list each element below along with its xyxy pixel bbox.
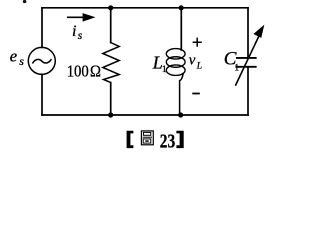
svg-text:e: e [10,46,17,65]
label plus [193,38,202,47]
caption glyph TU bottom inner mark [145,140,148,142]
svg-text:1: 1 [234,63,239,73]
inductor L1 loop 3 [166,65,185,76]
capacitor C1 variable arrow shaft [236,36,259,85]
caption glyph TU middle stroke [143,136,152,138]
svg-text:i: i [72,23,76,40]
wire left lower segment [41,74,43,115]
wire top rail [42,7,248,9]
resistor R 100ohm zigzag [103,43,119,83]
inductor L1 loop 1 [166,49,185,60]
wire right lower segment [247,67,249,115]
svg-text:1: 1 [162,65,167,75]
junction dot top resistor [108,5,113,10]
caption glyph TU bottom box [143,139,151,143]
junction dot top inductor [179,5,184,10]
junction dot bottom inductor [178,112,183,117]
caption glyph TU (figure) outer box [141,131,153,145]
caption glyph TU top inner box [143,132,150,135]
current is arrow shaft [67,16,84,18]
junction dot bottom resistor [108,112,113,117]
wire resistor branch bottom stub [110,83,112,116]
wire right upper segment [247,8,249,58]
svg-text:23: 23 [160,131,175,153]
svg-text:100 Ω: 100 Ω [67,61,101,80]
wire inductor branch top stub [180,8,182,50]
capacitor C1 top plate [237,57,256,59]
inductor L1 loop 2 [166,57,185,68]
caption left lenticular bracket [127,131,134,148]
svg-text:v: v [189,52,196,68]
AC source ES circle [28,47,55,74]
svg-text:s: s [19,54,24,68]
inductor L1 exit curve [180,74,184,116]
AC source sine tilde [33,59,51,63]
capacitor C1 variable arrow head [254,26,263,37]
svg-text:s: s [78,30,83,42]
wire resistor branch top stub [110,8,112,43]
svg-text:L: L [196,62,202,72]
wire left upper segment [41,8,43,48]
label minus [192,93,200,95]
caption right lenticular bracket [176,131,183,148]
wire bottom rail [42,114,248,116]
capacitor C1 bottom plate [236,66,255,68]
current is arrow head [83,13,96,22]
stray ink speck top left [23,0,27,3]
